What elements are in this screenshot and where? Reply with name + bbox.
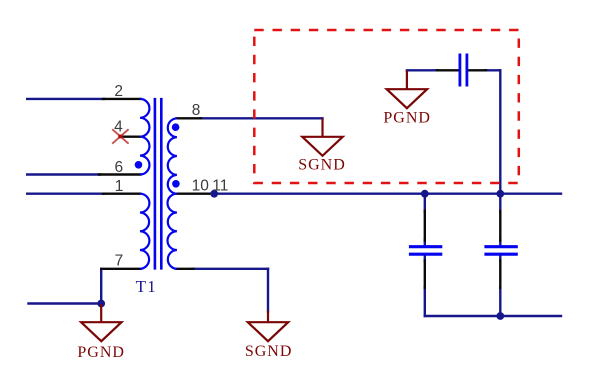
svg-text:7: 7	[115, 253, 124, 270]
svg-text:8: 8	[192, 102, 201, 119]
svg-text:11: 11	[212, 178, 228, 195]
svg-text:SGND: SGND	[245, 343, 293, 360]
svg-text:4: 4	[114, 119, 123, 136]
svg-text:10: 10	[192, 178, 210, 195]
svg-text:T1: T1	[136, 277, 157, 296]
svg-text:PGND: PGND	[77, 344, 125, 361]
svg-text:2: 2	[114, 83, 123, 100]
svg-text:SGND: SGND	[298, 157, 346, 174]
svg-text:1: 1	[115, 178, 124, 195]
svg-text:6: 6	[114, 159, 123, 176]
svg-text:PGND: PGND	[383, 110, 431, 127]
